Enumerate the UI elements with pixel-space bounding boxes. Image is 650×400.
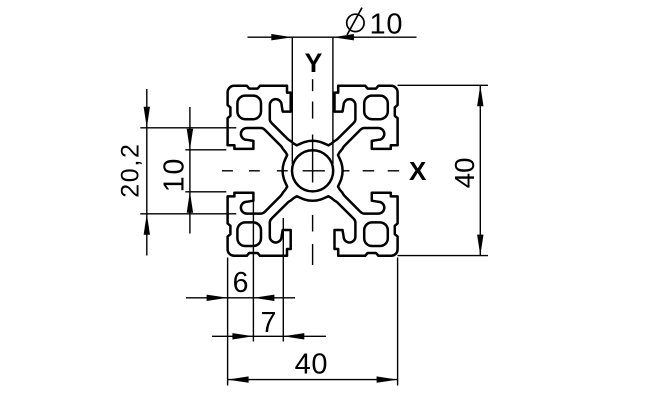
- corner hole bottom-right: [364, 222, 388, 246]
- center bore: [292, 150, 333, 191]
- svg-text:X: X: [409, 156, 427, 186]
- dimension diameter 10 top: [291, 37, 293, 164]
- svg-text:20,2: 20,2: [117, 142, 145, 197]
- corner hole top-right: [364, 96, 388, 120]
- corner hole bottom-left: [237, 222, 261, 246]
- svg-text:7: 7: [261, 307, 277, 339]
- dimension 40 bottom: [397, 258, 399, 386]
- profile outline: [228, 86, 398, 256]
- arrowheads 40 bottom dimension: [228, 376, 249, 382]
- diameter symbol: [347, 14, 364, 31]
- dimension 10 left: [185, 149, 226, 151]
- arrowheads 20,2 dimension: [144, 107, 150, 128]
- svg-text:40: 40: [295, 349, 328, 381]
- svg-text:Y: Y: [305, 48, 323, 78]
- corner hole top-left: [237, 96, 261, 120]
- Y axis center line: [312, 79, 314, 91]
- arrowheads 6 dimension: [207, 295, 228, 301]
- arrowheads 7 dimension: [232, 333, 253, 339]
- svg-text:10: 10: [370, 8, 404, 40]
- arrowheads 10 left dimension: [187, 129, 193, 150]
- arrowheads 40 right dimension: [477, 85, 483, 106]
- arrowheads diameter 10 dimension: [271, 34, 292, 40]
- dimension 7 bottom: [282, 218, 284, 342]
- dimension 40 right: [398, 84, 489, 86]
- svg-text:10: 10: [159, 157, 191, 193]
- X axis center line: [222, 170, 233, 172]
- dimension 20,2 left: [140, 127, 236, 129]
- svg-text:40: 40: [449, 158, 480, 189]
- dimension 6 bottom: [227, 258, 229, 386]
- svg-text:6: 6: [233, 267, 249, 299]
